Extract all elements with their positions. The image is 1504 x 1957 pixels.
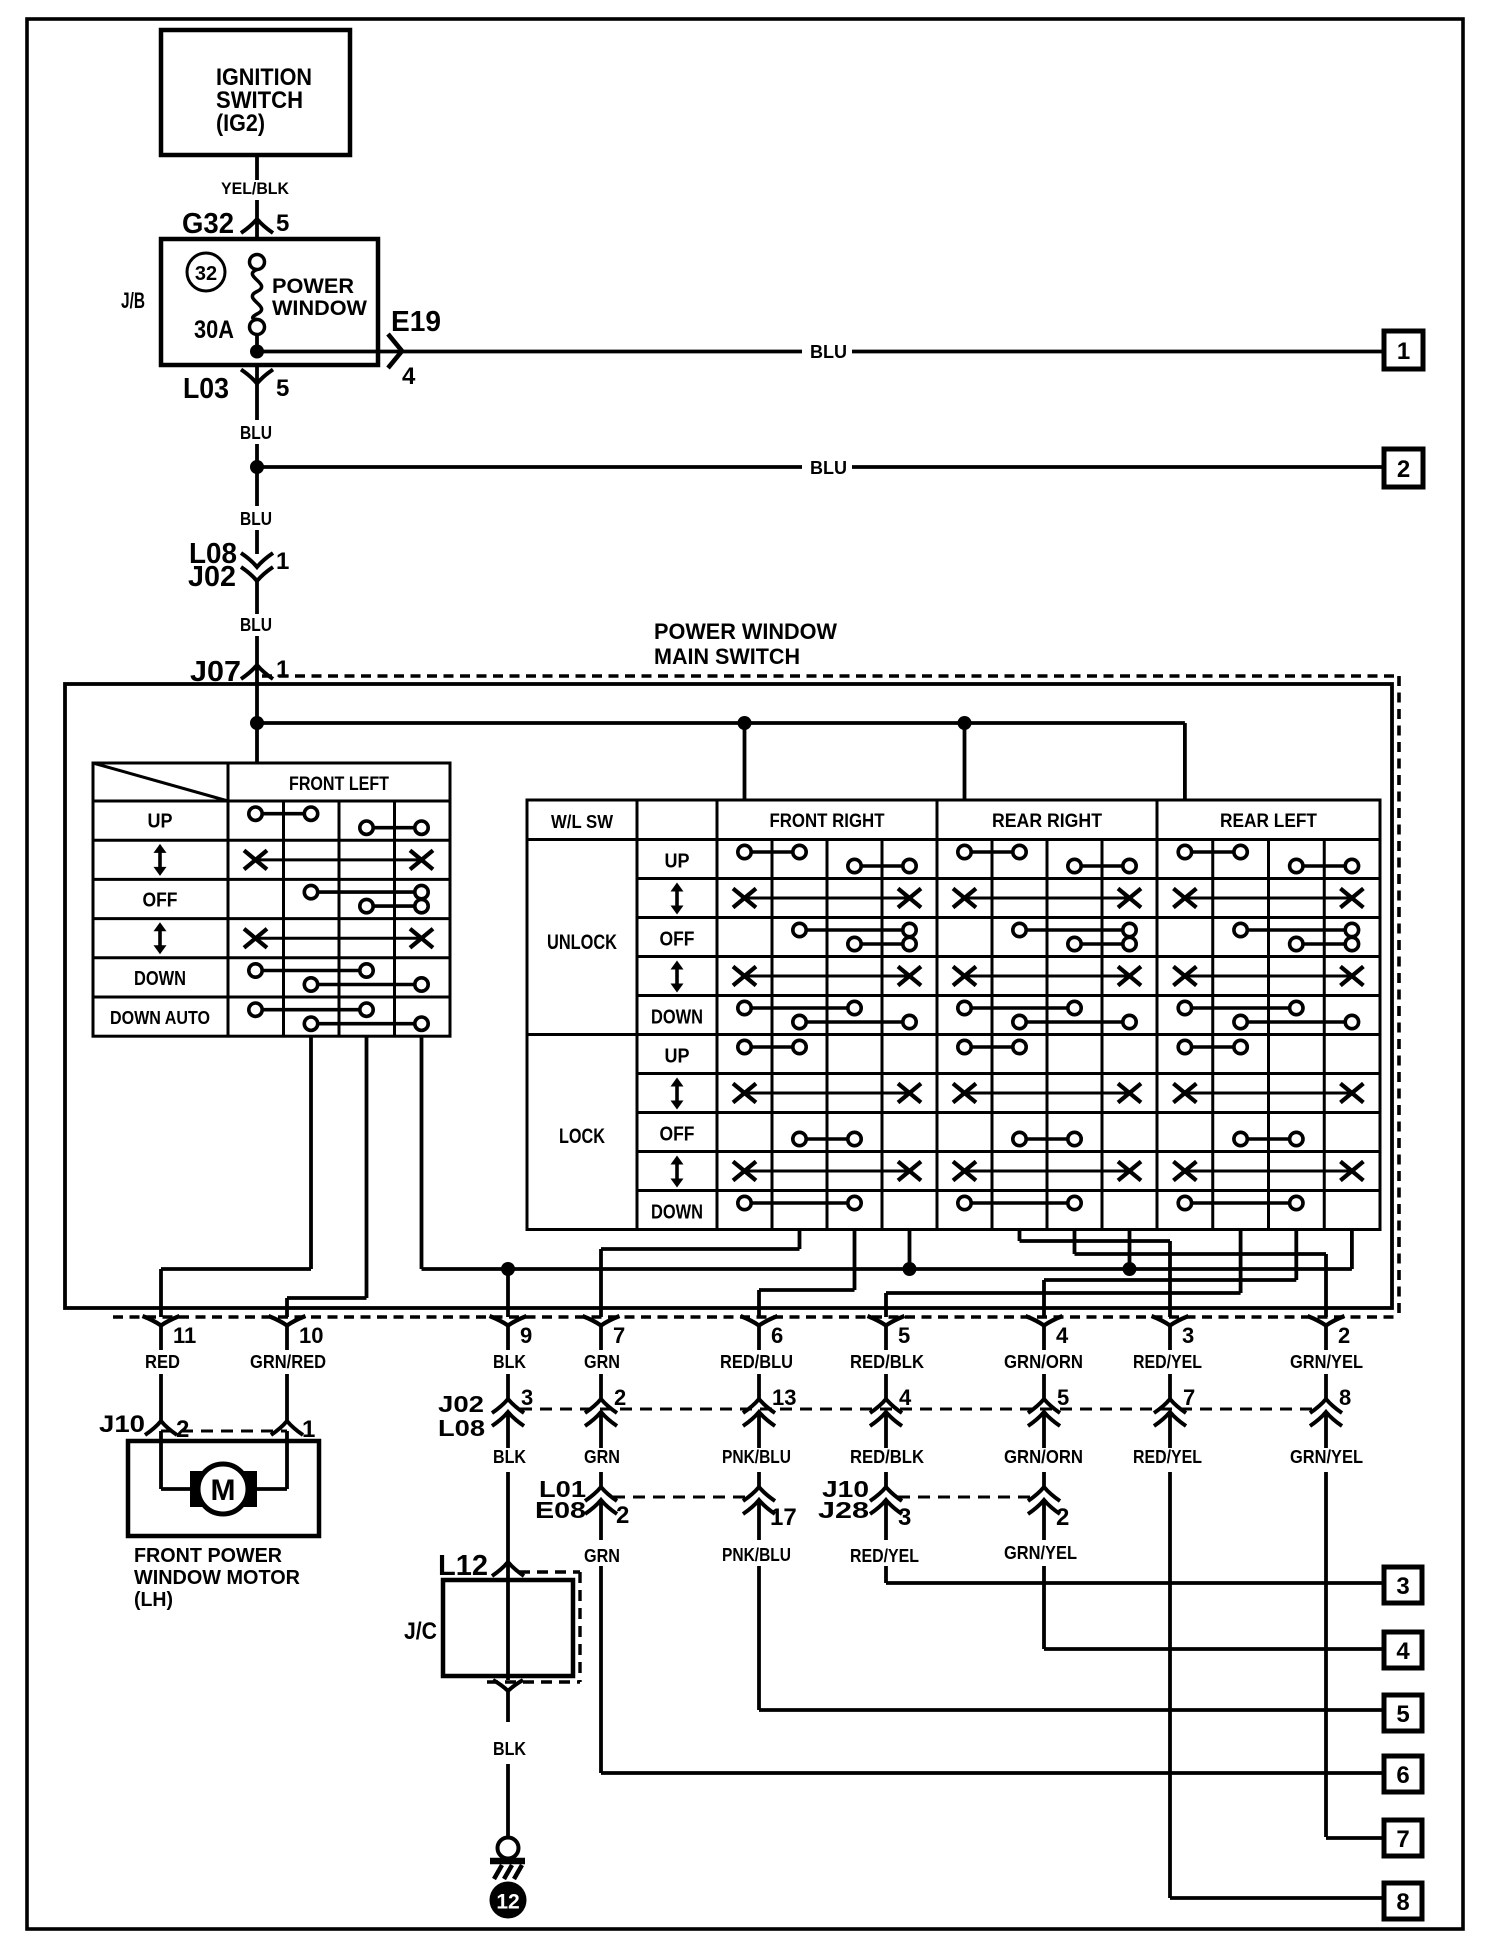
common ground bus wire bbox=[422, 1267, 1352, 1271]
junction block J/B box bbox=[161, 239, 378, 365]
connector J10/J28 pins 3 and 2 bbox=[898, 1496, 1032, 1499]
svg-text:POWER: POWER bbox=[272, 275, 354, 298]
connector J02/L08 bbox=[520, 1408, 1314, 1411]
power window main switch solid box bbox=[65, 684, 1392, 1308]
REAR RIGHT LOCK DOWN contacts bbox=[965, 1201, 1075, 1205]
FRONT RIGHT LOCK interlock X row 2 bbox=[745, 1170, 910, 1173]
W/L SW switch table grid bbox=[527, 800, 1380, 1230]
svg-text:G32: G32 bbox=[182, 208, 234, 240]
REAR LEFT LOCK interlock X row 1 bbox=[1185, 1092, 1352, 1095]
W/L SW UNLOCK/LOCK divider bbox=[527, 1033, 637, 1036]
FRONT RIGHT UNLOCK DOWN contacts bbox=[745, 1006, 855, 1010]
wire GRN to L01/E08 bbox=[599, 1412, 603, 1448]
REAR RIGHT UNLOCK interlock X row 2 bbox=[965, 975, 1130, 978]
REAR RIGHT UNLOCK interlock X row 1 bbox=[965, 897, 1130, 900]
FRONT LEFT up-down arrows bbox=[158, 849, 162, 871]
FRONT RIGHT LOCK interlock X row 1 bbox=[745, 1092, 910, 1095]
svg-text:LOCK: LOCK bbox=[559, 1125, 605, 1148]
wire RED/YEL to terminal 8 bbox=[1168, 1412, 1172, 1448]
terminal box 8 bbox=[1384, 1883, 1422, 1919]
svg-text:RED/YEL: RED/YEL bbox=[850, 1546, 919, 1566]
svg-text:BLU: BLU bbox=[240, 615, 272, 635]
wire FR col2 to pin 7 bbox=[798, 1230, 802, 1250]
svg-text:UP: UP bbox=[665, 851, 690, 873]
direction up-down arrows bbox=[675, 888, 679, 910]
svg-text:4: 4 bbox=[1056, 1323, 1069, 1348]
REAR LEFT UNLOCK interlock X row 1 bbox=[1185, 897, 1352, 900]
svg-text:RED/BLU: RED/BLU bbox=[720, 1352, 793, 1372]
connector L01/E08 pins 2 and 17 bbox=[613, 1496, 747, 1499]
wire to FRONT RIGHT switch bbox=[743, 723, 747, 800]
front power window motor box bbox=[128, 1441, 319, 1536]
FRONT RIGHT UNLOCK interlock X row 2 bbox=[745, 975, 910, 978]
svg-text:WINDOW MOTOR: WINDOW MOTOR bbox=[134, 1567, 301, 1589]
wire to REAR RIGHT switch bbox=[963, 723, 967, 800]
FRONT RIGHT LOCK DOWN contacts bbox=[745, 1201, 855, 1205]
wire to J02/L08 connector bbox=[599, 1325, 603, 1350]
wire GRN/ORN to J10/J28 bbox=[1042, 1412, 1046, 1448]
wire to J02/L08 connector bbox=[1324, 1325, 1328, 1350]
FRONT LEFT interlock X row 1 bbox=[256, 858, 422, 861]
wire to J02/L08 connector bbox=[1042, 1325, 1046, 1350]
svg-text:BLU: BLU bbox=[240, 423, 272, 443]
wire BLU below junction bbox=[255, 467, 259, 506]
main switch pin 2 bbox=[1308, 1316, 1345, 1326]
svg-text:7: 7 bbox=[613, 1323, 625, 1348]
main switch pin 3 bbox=[1152, 1316, 1189, 1326]
svg-text:(IG2): (IG2) bbox=[216, 110, 265, 137]
svg-text:POWER WINDOW: POWER WINDOW bbox=[654, 619, 837, 644]
svg-text:RED/BLK: RED/BLK bbox=[850, 1447, 924, 1467]
REAR RIGHT UNLOCK UP contacts bbox=[965, 850, 1020, 854]
junction node FL supply bbox=[250, 716, 264, 730]
svg-text:OFF: OFF bbox=[143, 890, 178, 912]
svg-text:7: 7 bbox=[1396, 1826, 1409, 1853]
REAR LEFT UNLOCK OFF contacts bbox=[1241, 928, 1352, 932]
wire RED/BLK to J10/J28 bbox=[884, 1412, 888, 1448]
svg-text:2: 2 bbox=[1338, 1323, 1350, 1348]
connector J02/L08 pin 3 bbox=[492, 1399, 524, 1413]
REAR RIGHT UNLOCK DOWN contacts bbox=[965, 1006, 1075, 1010]
wire to J02/L08 connector bbox=[884, 1325, 888, 1350]
wire FL col2 to pin 11 bbox=[309, 1036, 313, 1269]
svg-text:UP: UP bbox=[148, 811, 173, 833]
FRONT RIGHT UNLOCK OFF contacts bbox=[800, 928, 910, 932]
svg-text:J02: J02 bbox=[438, 1391, 484, 1417]
svg-text:GRN/YEL: GRN/YEL bbox=[1004, 1543, 1077, 1563]
REAR LEFT LOCK interlock X row 2 bbox=[1185, 1170, 1352, 1173]
svg-text:GRN/YEL: GRN/YEL bbox=[1290, 1447, 1363, 1467]
svg-text:MAIN SWITCH: MAIN SWITCH bbox=[654, 644, 800, 669]
svg-text:L03: L03 bbox=[183, 373, 229, 405]
svg-text:PNK/BLU: PNK/BLU bbox=[722, 1545, 791, 1565]
terminal box 7 bbox=[1384, 1820, 1422, 1856]
junction node RR supply bbox=[958, 716, 972, 730]
ground number 12 bbox=[490, 1882, 527, 1919]
main switch pin 4 bbox=[1026, 1316, 1063, 1326]
FRONT LEFT DOWN AUTO contacts bbox=[256, 1008, 367, 1012]
connector L03 pin 5 bbox=[255, 365, 259, 383]
wire terminal 7 horizontal bbox=[1326, 1836, 1384, 1840]
svg-text:DOWN: DOWN bbox=[651, 1007, 703, 1029]
svg-text:2: 2 bbox=[614, 1385, 626, 1410]
main switch pin 5 bbox=[868, 1316, 905, 1326]
FRONT LEFT DOWN contacts bbox=[256, 969, 367, 973]
wire GRN/YEL to terminal 7 bbox=[1324, 1412, 1328, 1448]
FRONT RIGHT UNLOCK interlock X row 1 bbox=[745, 897, 910, 900]
connector L12 bbox=[492, 1562, 524, 1576]
ignition switch (IG2) box bbox=[161, 30, 350, 155]
REAR LEFT UNLOCK UP contacts bbox=[1185, 850, 1241, 854]
wire PNK/BLU to L01/E08 bbox=[757, 1412, 761, 1448]
REAR RIGHT LOCK interlock X row 1 bbox=[965, 1092, 1130, 1095]
terminal box 3 bbox=[1384, 1567, 1422, 1603]
junction node FR col4 bbox=[903, 1262, 917, 1276]
svg-text:GRN/YEL: GRN/YEL bbox=[1290, 1352, 1363, 1372]
svg-text:2: 2 bbox=[1397, 456, 1410, 483]
svg-text:12: 12 bbox=[496, 1891, 519, 1914]
svg-text:2: 2 bbox=[1056, 1504, 1069, 1531]
svg-text:6: 6 bbox=[771, 1323, 783, 1348]
svg-text:GRN/RED: GRN/RED bbox=[250, 1352, 326, 1372]
svg-text:E19: E19 bbox=[391, 306, 441, 338]
REAR LEFT UNLOCK interlock X row 2 bbox=[1185, 975, 1352, 978]
svg-text:5: 5 bbox=[276, 375, 289, 402]
svg-text:32: 32 bbox=[195, 263, 217, 285]
svg-text:BLU: BLU bbox=[810, 458, 847, 478]
svg-text:2: 2 bbox=[616, 1502, 629, 1529]
svg-text:4: 4 bbox=[1396, 1638, 1410, 1665]
svg-text:7: 7 bbox=[1183, 1385, 1195, 1410]
terminal box 1 bbox=[1384, 331, 1423, 369]
svg-text:RED/BLK: RED/BLK bbox=[850, 1352, 924, 1372]
svg-text:5: 5 bbox=[898, 1323, 910, 1348]
svg-text:RED/YEL: RED/YEL bbox=[1133, 1352, 1202, 1372]
main switch pin 7 bbox=[583, 1316, 620, 1326]
REAR RIGHT LOCK UP contacts bbox=[965, 1045, 1020, 1049]
main switch pin 11 bbox=[143, 1316, 180, 1326]
svg-text:GRN: GRN bbox=[584, 1447, 620, 1467]
wire RED/YEL down to terminal 3 bbox=[884, 1500, 888, 1540]
svg-text:J/B: J/B bbox=[121, 288, 145, 313]
wire to J02/L08 connector bbox=[757, 1325, 761, 1350]
FRONT LEFT switch table grid bbox=[93, 763, 450, 1036]
svg-text:(LH): (LH) bbox=[134, 1589, 173, 1611]
svg-text:5: 5 bbox=[1396, 1701, 1409, 1728]
svg-text:11: 11 bbox=[173, 1323, 196, 1348]
svg-text:FRONT POWER: FRONT POWER bbox=[134, 1545, 283, 1567]
wire to J10 connector bbox=[159, 1325, 163, 1350]
svg-text:DOWN AUTO: DOWN AUTO bbox=[110, 1007, 210, 1028]
FRONT RIGHT LOCK UP contacts bbox=[745, 1045, 800, 1049]
svg-text:DOWN: DOWN bbox=[651, 1202, 703, 1224]
FRONT RIGHT UNLOCK UP contacts bbox=[745, 850, 800, 854]
svg-text:FRONT RIGHT: FRONT RIGHT bbox=[770, 811, 885, 832]
REAR LEFT LOCK OFF contacts bbox=[1241, 1137, 1297, 1141]
REAR LEFT LOCK DOWN contacts bbox=[1185, 1201, 1296, 1205]
wire PNK/BLU down to terminal 5 bbox=[757, 1500, 761, 1540]
svg-text:UP: UP bbox=[665, 1046, 690, 1068]
junction node RR col4 bbox=[1123, 1262, 1137, 1276]
wire to J10 connector bbox=[285, 1325, 289, 1350]
svg-text:FRONT LEFT: FRONT LEFT bbox=[289, 774, 389, 795]
svg-text:J28: J28 bbox=[818, 1497, 869, 1523]
wire to J02/L08 connector bbox=[1168, 1325, 1172, 1350]
REAR LEFT UNLOCK DOWN contacts bbox=[1185, 1006, 1296, 1010]
connector J07 pin 1 bbox=[241, 665, 273, 679]
svg-text:REAR LEFT: REAR LEFT bbox=[1220, 811, 1317, 832]
wire to J02/L08 connector bbox=[506, 1325, 510, 1350]
svg-text:10: 10 bbox=[299, 1323, 323, 1348]
wire FL col4 to common node bbox=[420, 1036, 424, 1269]
wire RL col3 to pin 4 bbox=[1294, 1230, 1298, 1281]
motor M symbol bbox=[190, 1471, 205, 1507]
svg-text:3: 3 bbox=[521, 1385, 533, 1410]
main switch pin 10 bbox=[269, 1316, 306, 1326]
junction connector J/C box bbox=[519, 1570, 580, 1573]
junction node pin 9 bbox=[501, 1262, 515, 1276]
svg-text:5: 5 bbox=[1057, 1385, 1069, 1410]
svg-text:4: 4 bbox=[899, 1385, 912, 1410]
svg-text:9: 9 bbox=[520, 1323, 532, 1348]
svg-text:E08: E08 bbox=[535, 1497, 586, 1523]
connector J02/L08 pin 5 bbox=[1028, 1399, 1060, 1413]
svg-text:1: 1 bbox=[1397, 338, 1410, 365]
svg-text:J10: J10 bbox=[99, 1411, 145, 1438]
svg-text:13: 13 bbox=[772, 1385, 796, 1410]
svg-text:J02: J02 bbox=[188, 561, 236, 593]
svg-text:W/L SW: W/L SW bbox=[551, 811, 613, 832]
wire BLU from J/B through E19 to terminal 1 bbox=[257, 350, 802, 354]
motor wires bbox=[159, 1441, 163, 1489]
svg-text:GRN: GRN bbox=[584, 1352, 620, 1372]
svg-text:REAR RIGHT: REAR RIGHT bbox=[992, 811, 1102, 832]
wire YEL/BLK from ignition switch to G32 bbox=[255, 155, 259, 180]
svg-text:5: 5 bbox=[276, 210, 289, 237]
svg-text:BLK: BLK bbox=[493, 1352, 526, 1372]
REAR RIGHT UNLOCK OFF contacts bbox=[1020, 928, 1130, 932]
svg-text:J/C: J/C bbox=[404, 1618, 437, 1645]
svg-text:BLU: BLU bbox=[810, 342, 847, 362]
svg-text:PNK/BLU: PNK/BLU bbox=[722, 1447, 791, 1467]
ground symbol bbox=[498, 1838, 519, 1859]
connector J02/L08 pin 4 bbox=[870, 1399, 902, 1413]
svg-text:8: 8 bbox=[1396, 1889, 1409, 1916]
REAR RIGHT LOCK interlock X row 2 bbox=[965, 1170, 1130, 1173]
svg-text:GRN/ORN: GRN/ORN bbox=[1004, 1352, 1083, 1372]
REAR LEFT LOCK UP contacts bbox=[1185, 1045, 1241, 1049]
terminal box 4 bbox=[1384, 1632, 1422, 1668]
connector J02/L08 pin 8 bbox=[1310, 1399, 1342, 1413]
main switch pin 6 bbox=[741, 1316, 778, 1326]
main switch pin 9 bbox=[490, 1316, 527, 1326]
svg-text:L12: L12 bbox=[438, 1550, 488, 1582]
svg-text:RED/YEL: RED/YEL bbox=[1133, 1447, 1202, 1467]
svg-text:4: 4 bbox=[402, 363, 416, 390]
junction node FR supply bbox=[738, 716, 752, 730]
wire terminal 8 horizontal bbox=[1170, 1896, 1384, 1900]
connector J10 pins 2 and 1 bbox=[161, 1430, 287, 1433]
connector below J/C bbox=[493, 1680, 523, 1691]
power window main switch dashed outline bbox=[262, 674, 1399, 678]
svg-text:BLU: BLU bbox=[240, 509, 272, 529]
svg-text:GRN: GRN bbox=[584, 1546, 620, 1566]
terminal box 6 bbox=[1384, 1756, 1422, 1792]
svg-text:3: 3 bbox=[1182, 1323, 1194, 1348]
svg-text:WINDOW: WINDOW bbox=[272, 297, 367, 320]
wire BLU below L03 bbox=[255, 383, 259, 420]
svg-text:6: 6 bbox=[1396, 1762, 1409, 1789]
internal supply distribution wire bbox=[257, 721, 1185, 725]
FRONT LEFT OFF contacts bbox=[311, 890, 422, 894]
svg-text:3: 3 bbox=[898, 1504, 911, 1531]
FRONT LEFT interlock X row 2 bbox=[256, 937, 422, 940]
wire RR col3 to pin 2 bbox=[1073, 1230, 1077, 1255]
junction node to terminal 2 bbox=[250, 460, 264, 474]
svg-text:OFF: OFF bbox=[660, 929, 695, 951]
FRONT RIGHT LOCK OFF contacts bbox=[800, 1137, 855, 1141]
connector G32 pin 5 bbox=[241, 219, 273, 233]
wire GRN down to terminal 6 bbox=[599, 1500, 603, 1540]
svg-text:YEL/BLK: YEL/BLK bbox=[221, 180, 289, 198]
svg-text:UNLOCK: UNLOCK bbox=[547, 931, 617, 954]
svg-text:1: 1 bbox=[276, 656, 289, 683]
svg-text:17: 17 bbox=[770, 1504, 797, 1531]
wire GRN/YEL down to terminal 4 bbox=[1042, 1500, 1046, 1540]
wire RL col2 to pin 5 bbox=[1239, 1230, 1243, 1294]
FRONT LEFT UP contacts bbox=[256, 812, 312, 816]
svg-text:M: M bbox=[211, 1474, 236, 1507]
svg-text:8: 8 bbox=[1339, 1385, 1351, 1410]
wire FR col3 to pin 6 bbox=[853, 1230, 857, 1291]
wire BLU to terminal 2 bbox=[257, 465, 802, 469]
svg-text:3: 3 bbox=[1396, 1573, 1409, 1600]
terminal box 5 bbox=[1384, 1695, 1422, 1731]
terminal box 2 bbox=[1384, 449, 1423, 487]
wire RR col2 to pin 3 bbox=[1018, 1230, 1022, 1242]
svg-text:RED: RED bbox=[145, 1352, 180, 1372]
wire BLK to L12 bbox=[506, 1412, 510, 1448]
connector E19 pin 4 bbox=[388, 334, 402, 368]
svg-text:DOWN: DOWN bbox=[134, 968, 186, 990]
wire RL col4 to common bus bbox=[1350, 1230, 1354, 1270]
connector J02/L08 pin 2 bbox=[585, 1399, 617, 1413]
wire to REAR LEFT switch bbox=[1183, 723, 1187, 800]
svg-text:30A: 30A bbox=[194, 316, 234, 344]
circled fuse number 32 bbox=[187, 253, 225, 291]
connector L08/J02 pin 1 bbox=[241, 553, 273, 567]
svg-text:GRN/ORN: GRN/ORN bbox=[1004, 1447, 1083, 1467]
fuse 30A POWER WINDOW bbox=[250, 255, 265, 270]
connector J02/L08 pin 13 bbox=[743, 1399, 775, 1413]
junction node in J/B bbox=[250, 345, 264, 359]
wire FL col3 to pin 10 bbox=[365, 1036, 369, 1298]
svg-text:OFF: OFF bbox=[660, 1124, 695, 1146]
svg-text:L08: L08 bbox=[438, 1415, 485, 1441]
connector J02/L08 pin 7 bbox=[1154, 1399, 1186, 1413]
svg-text:BLK: BLK bbox=[493, 1447, 526, 1467]
REAR RIGHT LOCK OFF contacts bbox=[1020, 1137, 1075, 1141]
svg-text:BLK: BLK bbox=[493, 1739, 526, 1759]
svg-text:1: 1 bbox=[276, 548, 289, 575]
